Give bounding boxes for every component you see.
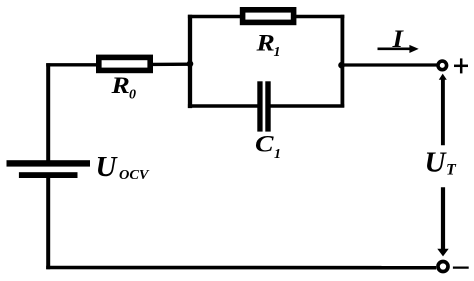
svg-text:0: 0 [129,88,136,103]
svg-text:U: U [96,151,119,183]
svg-text:T: T [446,162,457,179]
svg-text:R: R [110,73,129,98]
svg-text:R: R [255,31,274,56]
svg-text:U: U [425,146,448,178]
svg-text:C: C [255,132,274,157]
svg-text:1: 1 [274,45,281,60]
svg-text:1: 1 [274,147,281,162]
svg-text:I: I [391,26,404,53]
svg-text:OCV: OCV [119,168,150,183]
